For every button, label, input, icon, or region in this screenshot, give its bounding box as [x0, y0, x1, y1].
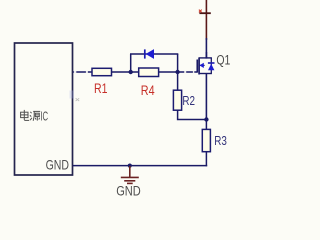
resistor R2	[173, 90, 181, 110]
power port +V bar	[199, 0, 210, 40]
node A junction	[129, 70, 133, 74]
body diode cathode bar	[208, 62, 215, 64]
wire node C to R3	[205, 120, 207, 130]
transistor Q1 (N-MOSFET with body diode)	[197, 52, 214, 120]
middle stub	[199, 64, 205, 66]
svg-text:GND: GND	[116, 183, 141, 199]
svg-text:IC: IC	[40, 111, 48, 124]
text 电源IC	[21, 110, 41, 121]
no-ERC red cross marker	[199, 10, 202, 13]
wire R3 to bottom rail	[205, 152, 207, 167]
wire riser right of diode branch	[177, 54, 179, 90]
wire diode branch top	[130, 53, 178, 55]
right rail	[210, 58, 212, 74]
faint gray cross	[76, 98, 80, 101]
resistor R4	[139, 68, 159, 77]
svg-text:R1: R1	[94, 81, 108, 97]
GND junction dot	[128, 164, 132, 168]
drain lead	[205, 52, 207, 59]
body diode triangle	[208, 64, 214, 70]
wire node B to Q1 gate	[178, 71, 198, 73]
ground symbol	[121, 166, 139, 183]
resistor R1	[92, 68, 112, 75]
wire IC to R1	[73, 71, 92, 73]
电 glyph	[21, 110, 30, 121]
svg-text:R3: R3	[214, 135, 227, 149]
drain stub	[199, 57, 212, 59]
source stub	[199, 73, 212, 75]
channel arrow	[199, 63, 203, 68]
wire R2 bottom	[178, 110, 207, 119]
diode D1	[145, 49, 154, 58]
resistor R3	[202, 129, 210, 151]
svg-text:R2: R2	[182, 95, 195, 109]
gate bar	[196, 60, 198, 73]
wire R1 to node A	[112, 71, 139, 73]
wire bottom rail	[73, 165, 207, 167]
channel bar	[198, 57, 200, 74]
源 glyph	[30, 111, 40, 120]
node C junction	[204, 117, 208, 121]
wire R4 to node B	[159, 71, 178, 73]
source lead	[205, 74, 207, 120]
svg-text:Q1: Q1	[216, 52, 230, 68]
node B junction	[175, 70, 179, 74]
IC box 电源IC	[15, 43, 73, 175]
svg-text:R4: R4	[141, 83, 155, 98]
wire riser left of diode branch	[130, 54, 132, 72]
svg-text:GND: GND	[46, 157, 70, 173]
wire drain vertical	[205, 38, 207, 59]
faint pin smudge	[70, 91, 75, 99]
